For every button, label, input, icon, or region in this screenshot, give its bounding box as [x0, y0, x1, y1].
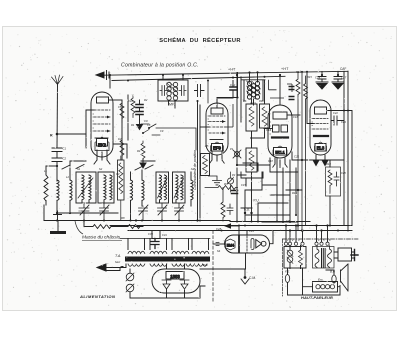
- decoupling cap C27 with ground: [334, 71, 342, 82]
- chassis ground symbol (thick bar): [57, 221, 59, 232]
- right rail inner: [343, 71, 345, 225]
- EBL1 cathode bar (solid): [272, 136, 288, 138]
- capacitor C1: [52, 148, 62, 158]
- antenna: [52, 75, 64, 85]
- EM4 deflector capsule: [251, 239, 254, 250]
- coil L2: [70, 168, 72, 213]
- variable capacitor CV3: [139, 205, 149, 221]
- EM4 cathode bar: [238, 236, 240, 252]
- EL3 label house: [315, 142, 327, 151]
- MF1 trim cap right: [179, 86, 186, 96]
- mains/aerial left arrow on bus: [96, 72, 104, 78]
- coil in box D: [176, 175, 178, 203]
- PU input arrow: [224, 223, 231, 229]
- TA winding top feeds: [128, 239, 209, 250]
- middle vertical rail B: [240, 77, 242, 122]
- solid caps left of EBL1: [289, 87, 295, 90]
- speaker cone: [341, 264, 349, 291]
- junction dots on rails: [285, 224, 287, 226]
- EF9 pin hooks: [210, 160, 225, 164]
- wire antenna node to grid: [57, 134, 86, 148]
- output transformer primary coil: [315, 245, 319, 267]
- transformer frame: [313, 247, 335, 269]
- oscillator coil circles column 2: [255, 81, 259, 85]
- antenna lead wire: [56, 85, 59, 149]
- EK2 grid arrows: [107, 116, 110, 133]
- coupling capacitor (solid) to EF9: [230, 87, 237, 90]
- ground arrow C24: [316, 82, 328, 89]
- MF1 trim cap left: [160, 86, 169, 96]
- tube EL3 envelope: [310, 100, 331, 155]
- EBL1 label house: [273, 146, 287, 155]
- potentiometer P1: [233, 150, 241, 158]
- rectifier tube 1883 envelope: [152, 269, 200, 293]
- TA transformer pre components: [152, 231, 160, 239]
- transformer TA core: [125, 257, 210, 262]
- EF9 grid left wire: [200, 126, 209, 128]
- oscillator cluster cross strokes: [247, 81, 261, 99]
- osc cluster feeds: [250, 72, 258, 105]
- oscillator top link: [241, 79, 265, 81]
- EL3 pins with arrows: [316, 155, 325, 161]
- voice coil connector box: [338, 248, 352, 261]
- C.M. ground line: [200, 268, 245, 270]
- connector cross: [351, 250, 358, 261]
- bottom rail 1: [110, 225, 352, 227]
- EF9 grids: [209, 116, 225, 133]
- EK2 electrode tick marks: [93, 110, 95, 131]
- hum-bucking coil box: [313, 282, 338, 293]
- coil L5 right of box D: [191, 172, 193, 206]
- small tick marks left of EM4: [216, 243, 219, 246]
- MF1 primary coil: [167, 82, 171, 100]
- chassis line (tuner ground bus): [44, 221, 310, 222]
- node R: [56, 133, 59, 136]
- 1883 label: [166, 272, 184, 280]
- transformer TA bottom windings: [128, 264, 207, 266]
- wire EK2 cathode row: [113, 144, 127, 158]
- EK2 label house: [95, 137, 109, 151]
- tuning block box C: [156, 172, 169, 203]
- middle vertical rail A: [236, 73, 238, 166]
- tube EF9 envelope: [206, 103, 228, 155]
- ground arrow C27: [332, 82, 344, 89]
- antenna padding coil (zigzag): [44, 166, 48, 205]
- field coil loops: [287, 250, 293, 256]
- ground arrow right cluster: [140, 159, 146, 168]
- left terminal oval: [285, 275, 289, 283]
- HP pin circles: [284, 242, 287, 245]
- EF9 pins: [212, 152, 222, 161]
- junction dots on buses and rails: [56, 71, 349, 232]
- C.M. ground symbol: [244, 269, 246, 276]
- hp bottom wiring: [288, 268, 341, 295]
- EBL1 pins: [275, 158, 285, 165]
- MF1 transformer box: [158, 80, 188, 101]
- extra wires upper mid right: [269, 80, 293, 98]
- 1883 bottom wires: [152, 264, 200, 298]
- capacitor C5 (solid): [136, 105, 143, 108]
- ground arrow small: [137, 120, 143, 130]
- speaker voice coil oval: [332, 275, 336, 283]
- cathode resistor R9 vertical: [221, 188, 225, 222]
- mid grid wires: [237, 158, 270, 222]
- EK2 cathode: [95, 137, 108, 139]
- wires right block: [330, 160, 344, 225]
- oscillator mid circles: [251, 84, 255, 88]
- variable capacitor CV2: [100, 203, 110, 221]
- EK2 grid left wires: [86, 110, 94, 148]
- solid cap mid: [232, 191, 238, 194]
- coil in box C: [160, 175, 162, 203]
- chassis rail extension: [230, 221, 310, 223]
- EF9 screen wire: [225, 104, 233, 127]
- trimmer arrow box A: [78, 178, 93, 198]
- resistor R2: [131, 95, 135, 118]
- EBL1 anode: [273, 112, 287, 119]
- bottom rail 2: [128, 230, 352, 232]
- tube EBL1 envelope: [268, 105, 292, 158]
- tone cap + resistor right side: [326, 167, 341, 196]
- EK2 anode: [97, 97, 109, 103]
- MF1 box feeds: [163, 75, 183, 108]
- EBL1 electrode ticks: [270, 122, 272, 134]
- EF9 anode: [211, 108, 223, 114]
- EM4 label house: [226, 239, 236, 250]
- tuning block box A: [76, 172, 96, 203]
- EK2 grids (dashed): [94, 110, 110, 131]
- small ground T on chassis line: [54, 211, 62, 221]
- MF1 coil cross strokes: [167, 82, 178, 97]
- HP dash-dot boundary vertical: [282, 239, 284, 296]
- coil L4: [142, 170, 144, 206]
- TA switch circles: [126, 273, 134, 281]
- EK2 label: [97, 139, 108, 147]
- EK2 top feed: [109, 75, 111, 88]
- top HT bus 1: [104, 71, 348, 75]
- EF9 cathode ground: [209, 176, 222, 185]
- variable capacitor CV5: [175, 203, 185, 221]
- decoupling cap C24 with ground: [318, 72, 326, 83]
- hum coil loops: [316, 285, 320, 289]
- MF1 secondary coil: [173, 82, 177, 100]
- resistor box lower: [246, 148, 257, 172]
- HP feed drops left group: [286, 226, 303, 243]
- switch contact row 1: [62, 161, 86, 169]
- resistor R1: [120, 100, 124, 123]
- EF9 label house: [211, 142, 224, 151]
- right rail outer: [347, 71, 349, 231]
- resistor R4: [141, 141, 145, 163]
- inline resistor R8 on chassis link line: [88, 225, 140, 229]
- EL3 grid coupling cap: [331, 116, 344, 125]
- output transformer secondary coil: [328, 245, 332, 267]
- EM4 tuning indicator envelope: [225, 235, 270, 253]
- MF1 output trimmer cap: [195, 85, 205, 97]
- tuning block box D: [173, 172, 186, 203]
- EM4 target triangle: [256, 240, 262, 248]
- EL3 grids: [313, 119, 328, 130]
- EL3 electrode ticks: [312, 119, 314, 130]
- AVC switch cluster: [141, 124, 196, 150]
- EBL1 top feed: [279, 76, 281, 105]
- EL3 cathode bar: [314, 135, 328, 137]
- tube EK2 envelope: [91, 92, 113, 157]
- wires osc section: [251, 81, 265, 191]
- wire bus under boxes: [57, 211, 118, 213]
- EBL1 diode plates: [273, 125, 280, 132]
- EL3 label: [315, 144, 326, 152]
- pot circle mid: [228, 178, 234, 184]
- top HT bus 2: [112, 76, 285, 80]
- EM4 grid dashed: [246, 236, 248, 252]
- capacitor C6 (solid): [136, 112, 143, 115]
- coil L1: [57, 180, 59, 213]
- EBL1 grid wire left: [264, 128, 272, 130]
- alim dash boundary: [212, 231, 214, 304]
- coil in box A: [82, 175, 84, 203]
- commutateur shaft line: [198, 101, 201, 221]
- EF9 electrode tick marks: [208, 116, 210, 130]
- field coil box: [284, 247, 306, 269]
- HP feed drops right group: [317, 226, 328, 243]
- variable capacitor CV1: [79, 203, 89, 221]
- EBL1 pin hooks: [273, 164, 288, 168]
- EBL1 label: [274, 148, 287, 156]
- junction dots: [301, 159, 303, 161]
- AVC resistor box left of L3: [118, 160, 125, 200]
- wire: [46, 165, 57, 167]
- variable capacitor CV4: [158, 203, 168, 221]
- resistor R3: [120, 140, 124, 160]
- PU terminal dots: [244, 212, 246, 214]
- oscillator switch cluster box: [244, 80, 263, 101]
- resistor R7 horizontal: [205, 186, 238, 222]
- EF9 label: [212, 144, 223, 152]
- chassis line left drop from antenna coil: [43, 205, 45, 221]
- EK2 pins: [94, 150, 110, 164]
- HP dash-dot boundary horizontal: [283, 238, 359, 240]
- transformer TA top windings: [128, 251, 209, 253]
- Masse du chassis leader: [75, 221, 83, 234]
- EM4 feeds: [239, 226, 247, 270]
- right rail third: [344, 111, 352, 226]
- grid resistor cluster right of EK2: vertical feed: [122, 95, 128, 160]
- mains input arrow: [106, 268, 126, 271]
- coil L3: [131, 172, 133, 221]
- volume pot arrow: [236, 160, 238, 165]
- EF9 cathode: [210, 139, 223, 141]
- tuning block box B: [98, 172, 114, 203]
- EF9 top feed: [207, 81, 209, 104]
- oscillator coil circles column 1: [247, 81, 251, 85]
- capacitor C2: [52, 158, 62, 181]
- EL3 anode: [315, 107, 327, 114]
- screen resistor box 1: [246, 104, 257, 131]
- EF9 cathode resistor box: [196, 127, 205, 129]
- screen resistor box 2: [260, 104, 270, 128]
- small cap near R9: [227, 204, 233, 215]
- switch contact row 2: [135, 161, 155, 170]
- resistor box on shaft: [201, 154, 210, 176]
- junction dots tuner: [56, 165, 58, 167]
- screen rail resistors between EBL1 and EL3: [296, 72, 300, 231]
- 1883 anodes: [162, 280, 171, 289]
- output transformer core: [322, 249, 326, 268]
- EM4 left lead: [213, 243, 225, 245]
- field coil series resistor: [299, 250, 303, 266]
- coil in box B: [104, 175, 106, 203]
- mid horizontal wires right: [270, 152, 330, 172]
- EL3 grid wire: [307, 72, 313, 124]
